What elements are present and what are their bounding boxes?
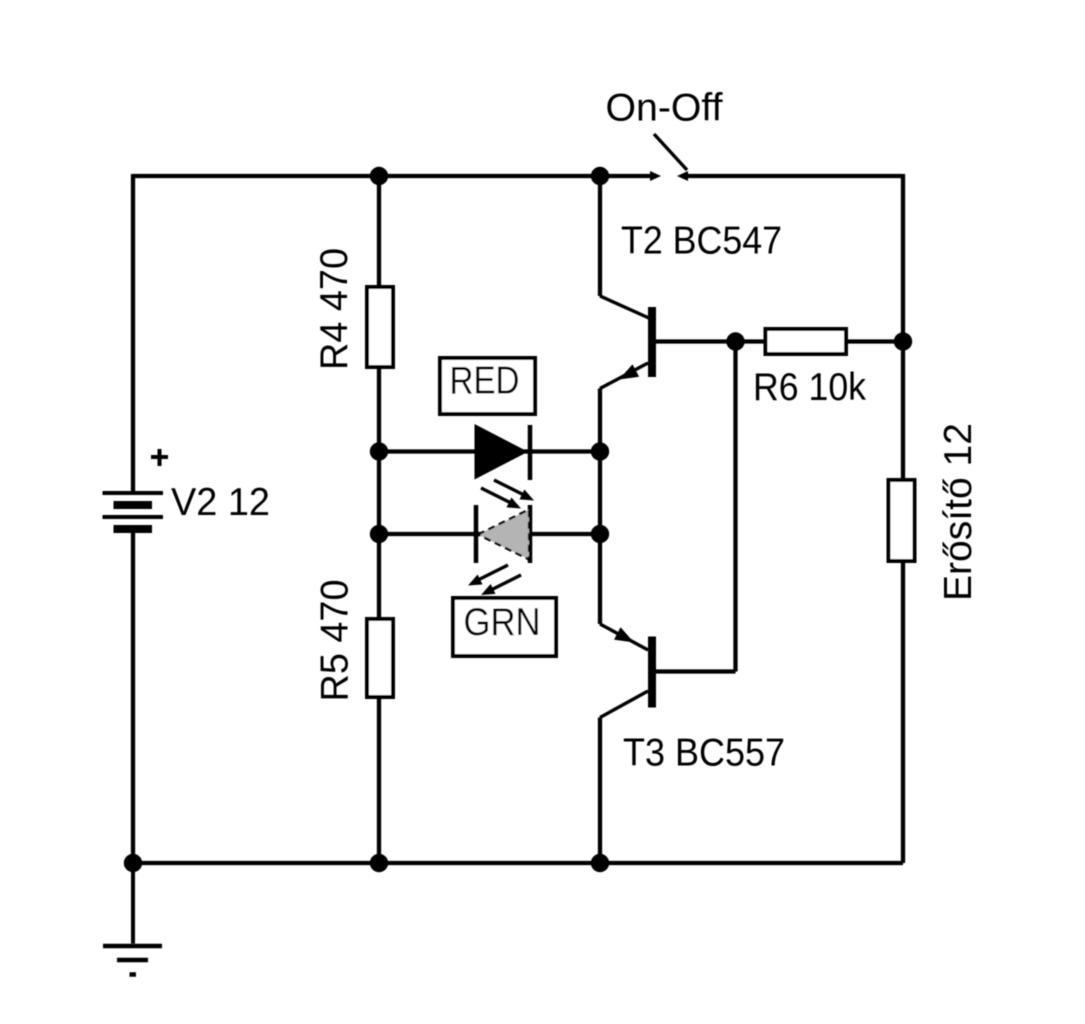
- LED RED: [475, 424, 535, 509]
- wire T2 collector riser: [598, 176, 602, 296]
- wire R4 bottom lead to node A: [377, 369, 381, 452]
- node T3 bottom: [591, 854, 609, 872]
- wire T2 base to node C: [656, 339, 766, 343]
- wire left rail from top rail to battery: [131, 174, 135, 493]
- wire T3 base: [656, 669, 736, 673]
- node RED right: [591, 442, 609, 460]
- wire T3 collector drop to bottom rail: [598, 718, 602, 864]
- svg-text:R5 470: R5 470: [314, 580, 357, 702]
- svg-text:On-Off: On-Off: [606, 87, 723, 130]
- wire RED LED row: [379, 449, 600, 453]
- node B GRN left: [370, 525, 388, 543]
- node GRN right: [591, 525, 609, 543]
- wire top rail left segment: [133, 174, 650, 178]
- label box GRN: [453, 598, 556, 656]
- wire right rail lower: [901, 563, 905, 863]
- svg-text:RED: RED: [450, 360, 520, 403]
- wire T2 emitter to LED nodes: [598, 389, 602, 625]
- svg-text:R4 470: R4 470: [313, 248, 356, 370]
- wire R5 bottom lead to bottom rail: [377, 697, 381, 863]
- switch On-Off: [650, 134, 688, 181]
- svg-text:V2 12: V2 12: [171, 481, 270, 524]
- node A RED left: [370, 442, 388, 460]
- node C base T2: [726, 332, 744, 350]
- LED GRN: [468, 505, 530, 595]
- node ground: [124, 854, 142, 872]
- node R6 right rail: [894, 332, 912, 350]
- wire GRN LED row: [379, 532, 600, 536]
- wire right rail upper: [901, 174, 905, 478]
- svg-text:T3 BC557: T3 BC557: [623, 732, 785, 775]
- wire bottom rail: [133, 861, 903, 865]
- wire between node A and node B: [377, 452, 381, 535]
- resistor Erosito 12: [889, 480, 915, 561]
- wire R5 top lead: [377, 534, 381, 619]
- wire R6 right lead: [846, 339, 903, 343]
- svg-text:R6 10k: R6 10k: [753, 366, 866, 409]
- svg-text:T2 BC547: T2 BC547: [621, 220, 782, 263]
- battery V2: [103, 449, 169, 529]
- wire R4 top lead: [377, 176, 381, 287]
- node R5 bottom: [370, 854, 388, 872]
- node top R4: [370, 167, 388, 185]
- node top T2: [591, 167, 609, 185]
- transistor Q T3: [600, 624, 656, 718]
- svg-text:GRN: GRN: [464, 601, 541, 644]
- resistor R4: [367, 287, 393, 367]
- wire node C down to T3 base: [733, 342, 737, 672]
- transistor Q T2: [600, 296, 656, 389]
- resistor R6: [766, 329, 847, 354]
- label box RED: [440, 358, 535, 414]
- svg-text:Erősítő 12: Erősítő 12: [937, 423, 980, 601]
- wire top rail right segment after switch: [688, 174, 903, 178]
- wire battery negative to bottom rail: [131, 529, 135, 863]
- ground: [103, 863, 162, 975]
- resistor R5: [367, 619, 393, 697]
